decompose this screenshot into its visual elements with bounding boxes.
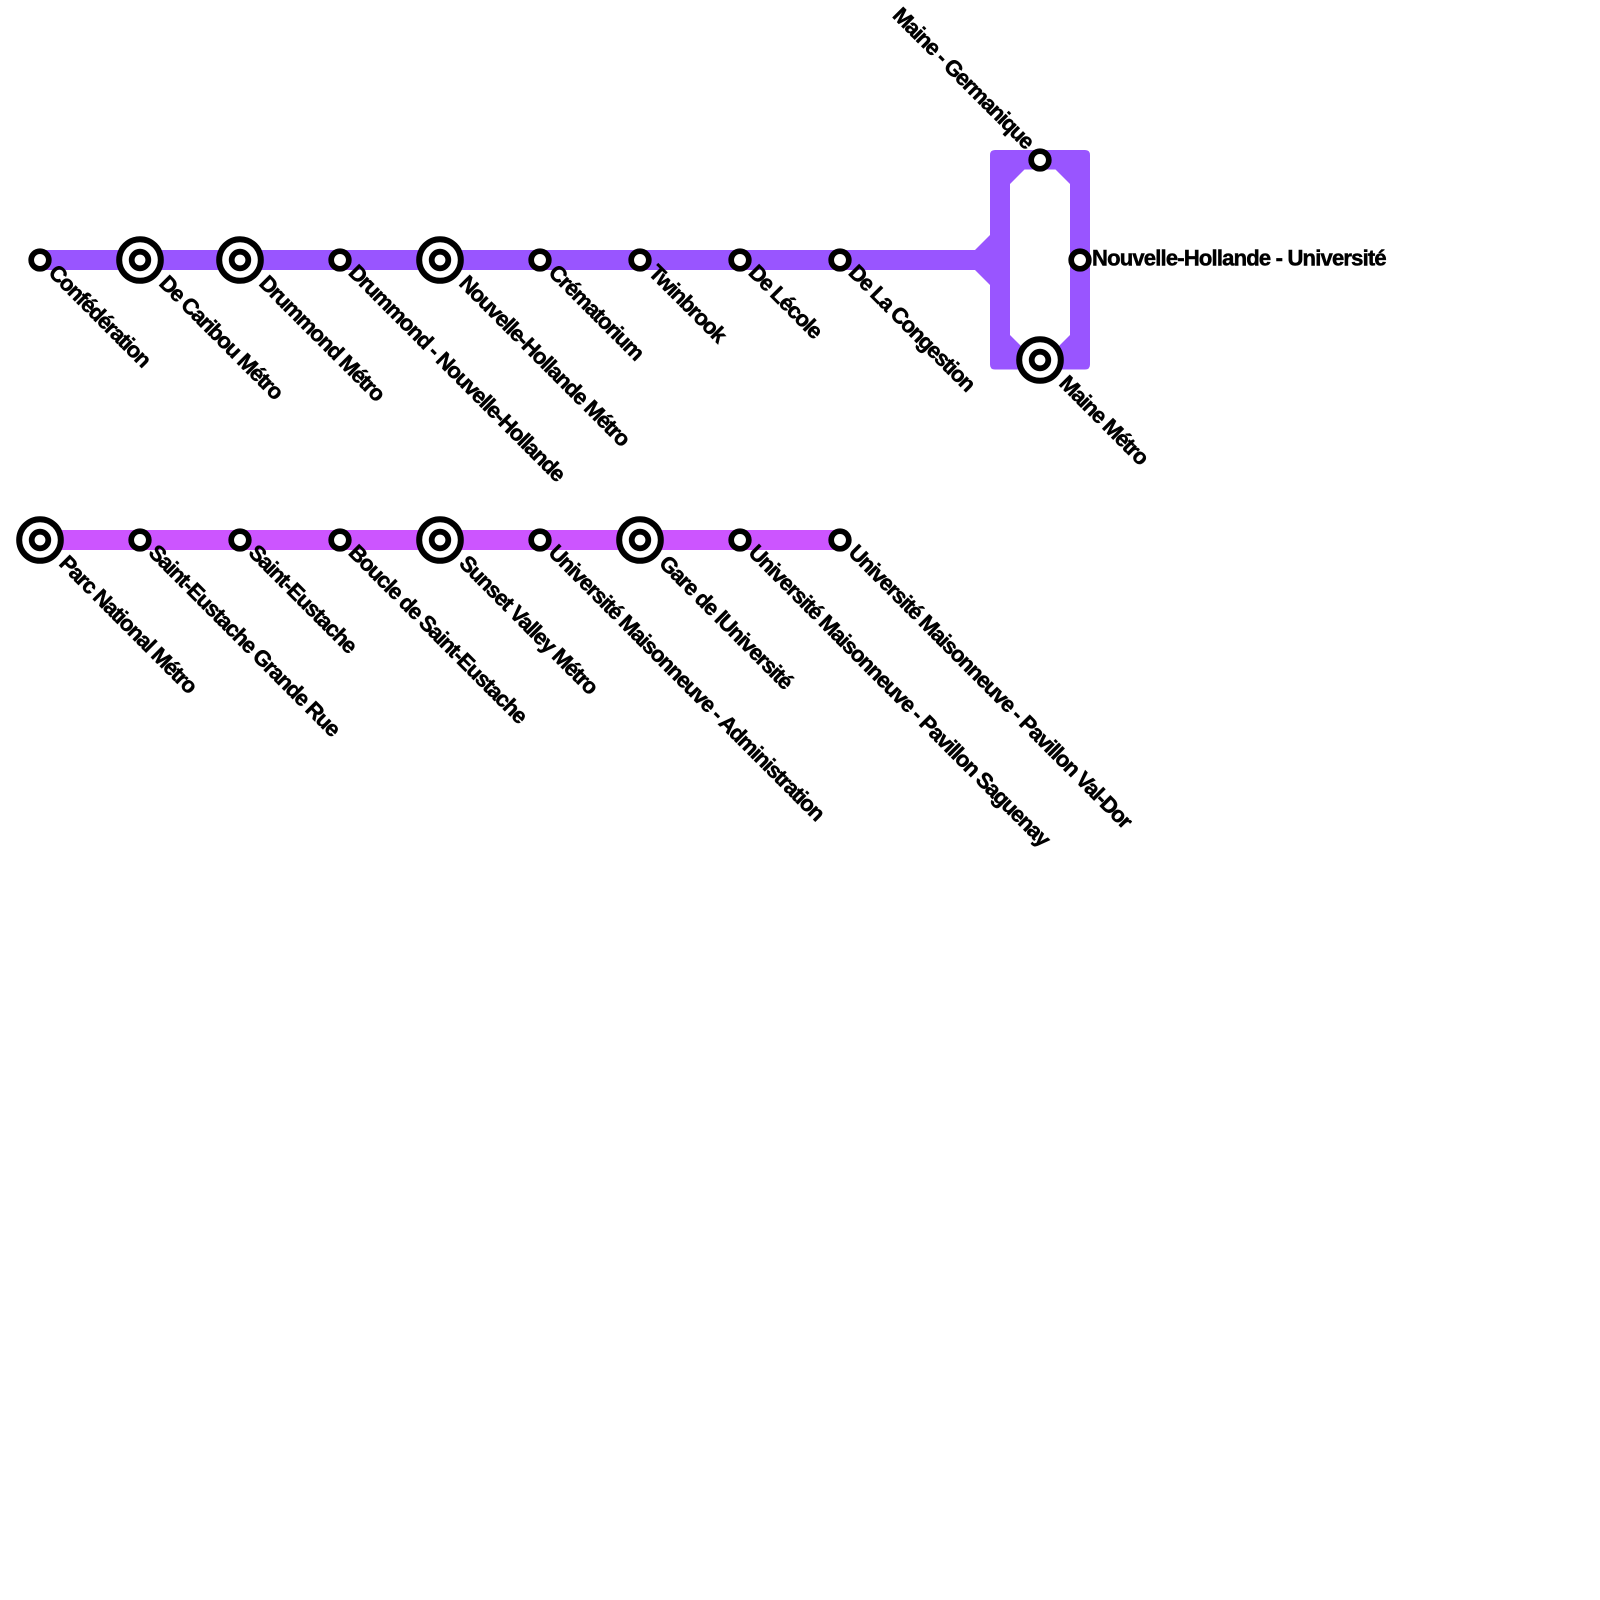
station Gare de lUniversité (interchange) bbox=[619, 519, 661, 561]
station De La Congestion bbox=[831, 251, 849, 269]
station Confédération bbox=[31, 251, 49, 269]
station Université Maisonneuve - Pavillon Val-Dor bbox=[831, 531, 849, 549]
station Maine - Germanique bbox=[1031, 151, 1049, 169]
line 1 (purple) main segment bbox=[40, 250, 975, 270]
station Maine Métro (interchange) bbox=[1019, 339, 1061, 381]
station Saint-Eustache bbox=[231, 531, 249, 549]
svg-text:Nouvelle-Hollande - Université: Nouvelle-Hollande - Université bbox=[1092, 246, 1386, 271]
station Université Maisonneuve - Pavillon Saguenay bbox=[731, 531, 749, 549]
station Boucle de Saint-Eustache bbox=[331, 531, 349, 549]
line 1 fork bevel bbox=[975, 235, 990, 285]
station Saint-Eustache Grande Rue bbox=[131, 531, 149, 549]
station Crématorium bbox=[531, 251, 549, 269]
station De Lécole bbox=[731, 251, 749, 269]
station Drummond Métro (interchange) bbox=[219, 239, 261, 281]
station Parc National Métro (interchange) bbox=[19, 519, 61, 561]
line 1 loop bbox=[990, 150, 1090, 370]
station Nouvelle-Hollande - Université bbox=[1071, 251, 1089, 269]
station Twinbrook bbox=[631, 251, 649, 269]
station Nouvelle-Hollande Métro (interchange) bbox=[419, 239, 461, 281]
station De Caribou Métro (interchange) bbox=[119, 239, 161, 281]
station Drummond - Nouvelle-Hollande bbox=[331, 251, 349, 269]
line 2 (magenta) main segment bbox=[40, 530, 840, 550]
station Université Maisonneuve - Administration bbox=[531, 531, 549, 549]
station Sunset Valley Métro (interchange) bbox=[419, 519, 461, 561]
